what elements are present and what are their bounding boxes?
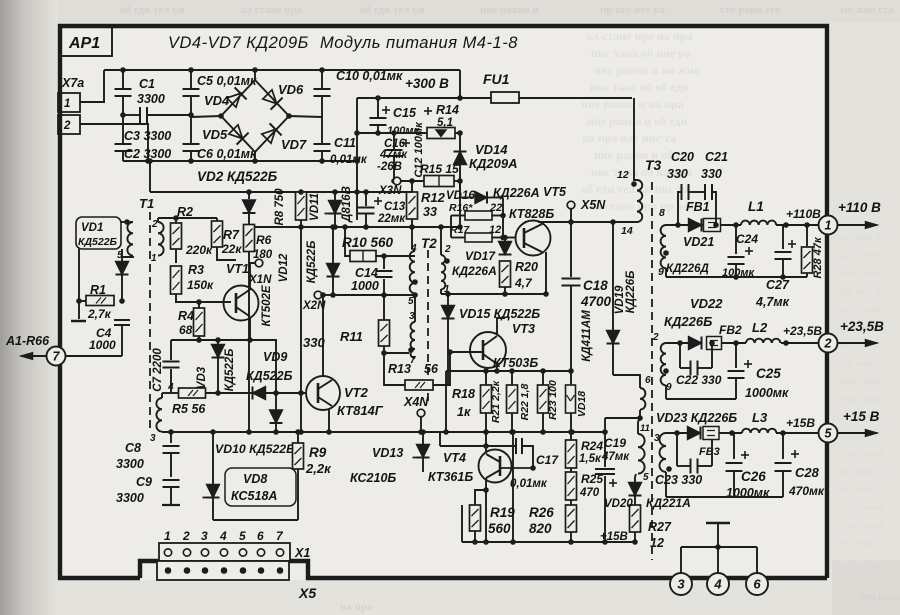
svg-text:470мк: 470мк — [788, 484, 825, 498]
svg-text:VD8: VD8 — [243, 472, 267, 486]
svg-text:2: 2 — [63, 120, 71, 132]
svg-text:Т3: Т3 — [645, 157, 662, 173]
svg-text:С8: С8 — [125, 441, 141, 455]
svg-text:R20: R20 — [515, 260, 538, 274]
svg-text:R21 2,2к: R21 2,2к — [490, 380, 502, 423]
svg-text:С18: С18 — [583, 278, 608, 293]
svg-text:VD13: VD13 — [372, 446, 403, 460]
svg-text:X5N: X5N — [580, 198, 606, 212]
svg-text:ние равн: ние равн — [840, 375, 885, 387]
svg-text:8: 8 — [659, 207, 665, 219]
svg-text:КД226А: КД226А — [452, 264, 497, 278]
svg-text:КД226А: КД226А — [493, 186, 540, 200]
svg-text:С28: С28 — [795, 465, 820, 480]
svg-text:220к: 220к — [185, 243, 213, 257]
svg-text:сто ронн: сто ронн — [860, 591, 900, 603]
svg-text:Т1: Т1 — [139, 196, 154, 211]
svg-text:150к: 150к — [187, 278, 214, 292]
svg-text:5: 5 — [408, 296, 414, 307]
svg-text:+300 В: +300 В — [405, 76, 449, 91]
svg-text:С2 3300: С2 3300 — [124, 147, 171, 161]
svg-text:-26В: -26В — [377, 161, 402, 173]
svg-text:+15В: +15В — [600, 531, 628, 543]
svg-text:сто ронн: сто ронн — [840, 519, 883, 531]
svg-text:КС518А: КС518А — [231, 489, 277, 503]
svg-text:ал стане про: ал стане про — [240, 4, 303, 16]
svg-text:VD11: VD11 — [309, 193, 321, 221]
svg-text:7: 7 — [53, 350, 61, 364]
svg-text:на пра в: на пра в — [840, 465, 881, 477]
svg-text:L2: L2 — [752, 320, 768, 335]
svg-text:R18: R18 — [452, 387, 475, 401]
svg-text:47мк: 47мк — [379, 149, 408, 161]
svg-text:С13: С13 — [384, 201, 406, 213]
svg-text:+23,5В: +23,5В — [840, 319, 884, 334]
svg-text:VT4: VT4 — [443, 451, 466, 465]
svg-text:КТ503Б: КТ503Б — [493, 356, 538, 370]
svg-text:АР1: АР1 — [68, 35, 100, 52]
svg-text:об еди т: об еди т — [840, 429, 879, 441]
svg-text:КД226Б: КД226Б — [625, 271, 637, 314]
svg-text:R19: R19 — [490, 505, 515, 520]
svg-text:R14: R14 — [436, 103, 459, 117]
svg-text:+15 В: +15 В — [843, 409, 880, 424]
svg-text:VD10 КД522Б: VD10 КД522Б — [215, 442, 295, 456]
svg-text:470: 470 — [579, 487, 600, 499]
svg-text:R28 47к: R28 47к — [812, 236, 824, 278]
svg-text:сто ронн: сто ронн — [840, 447, 883, 459]
svg-text:+110В: +110В — [786, 207, 821, 221]
svg-text:Модуль питания М4-1-8: Модуль питания М4-1-8 — [320, 34, 518, 52]
svg-text:VD18: VD18 — [576, 391, 588, 417]
svg-text:С12 100мк: С12 100мк — [413, 121, 425, 178]
svg-text:3: 3 — [201, 529, 208, 543]
svg-text:КС210Б: КС210Б — [350, 471, 396, 485]
svg-text:R8 750: R8 750 — [274, 188, 286, 226]
svg-text:R6: R6 — [256, 233, 272, 247]
svg-text:пис тана об ние ра: пис тана об ние ра — [591, 46, 691, 60]
svg-text:Д816В: Д816В — [341, 186, 353, 223]
svg-text:6: 6 — [257, 529, 264, 543]
svg-text:Х3N: Х3N — [378, 185, 402, 197]
svg-text:ние равно и на пра: ние равно и на пра — [581, 97, 684, 111]
svg-text:9: 9 — [658, 266, 664, 278]
svg-text:68: 68 — [179, 323, 193, 337]
svg-text:L3: L3 — [752, 410, 768, 425]
svg-text:КД209А: КД209А — [469, 156, 517, 171]
svg-text:Х5: Х5 — [298, 585, 316, 601]
svg-text:мо жно с: мо жно с — [840, 537, 883, 549]
svg-text:56: 56 — [424, 362, 439, 376]
svg-text:1000: 1000 — [89, 338, 116, 352]
svg-text:1,5к: 1,5к — [579, 453, 602, 465]
svg-text:VD14: VD14 — [475, 142, 508, 157]
svg-text:3: 3 — [150, 433, 156, 444]
svg-text:С14: С14 — [355, 266, 378, 280]
svg-text:330: 330 — [701, 167, 722, 181]
svg-text:1к: 1к — [457, 405, 471, 419]
svg-text:на пра: на пра — [340, 601, 373, 613]
svg-text:+15В: +15В — [786, 416, 815, 430]
svg-text:2: 2 — [444, 244, 451, 255]
svg-text:R26: R26 — [529, 505, 554, 520]
svg-text:Х1: Х1 — [294, 546, 310, 560]
svg-text:14: 14 — [621, 225, 633, 237]
svg-text:FB2: FB2 — [719, 323, 742, 337]
svg-text:ние равно и: ние равно и — [480, 4, 539, 16]
svg-text:С15: С15 — [393, 106, 417, 120]
svg-text:КТ502Е: КТ502Е — [261, 285, 273, 326]
svg-text:VD12: VD12 — [278, 253, 290, 282]
svg-text:пис тана об об еди: пис тана об об еди — [590, 80, 688, 94]
svg-text:7: 7 — [410, 355, 416, 366]
svg-text:R12: R12 — [421, 190, 446, 205]
svg-text:сто ронн его: сто ронн его — [720, 4, 781, 16]
svg-text:об еди тел ьн: об еди тел ьн — [360, 4, 425, 16]
svg-text:VD4: VD4 — [204, 93, 230, 108]
svg-text:5: 5 — [825, 427, 833, 441]
svg-text:2,2к: 2,2к — [305, 461, 332, 476]
svg-text:4,7: 4,7 — [514, 276, 533, 290]
svg-text:4: 4 — [167, 382, 174, 393]
svg-text:3300: 3300 — [116, 457, 144, 471]
svg-text:330: 330 — [667, 167, 688, 181]
svg-text:С27: С27 — [766, 278, 790, 292]
svg-text:R11: R11 — [340, 329, 363, 344]
svg-text:R10 560: R10 560 — [342, 235, 394, 250]
svg-text:А1-R66: А1-R66 — [5, 334, 50, 348]
svg-text:КД522Б: КД522Б — [246, 369, 293, 383]
svg-text:сто ронн: сто ронн — [840, 501, 883, 513]
svg-text:FB1: FB1 — [686, 200, 710, 214]
svg-text:пр ото нет ка: пр ото нет ка — [600, 4, 666, 16]
svg-text:820: 820 — [529, 521, 552, 536]
svg-text:VD7: VD7 — [281, 137, 307, 152]
svg-text:0,01мк: 0,01мк — [510, 478, 548, 490]
svg-text:R5 56: R5 56 — [172, 402, 206, 416]
svg-text:3300: 3300 — [137, 92, 165, 106]
svg-text:11: 11 — [640, 423, 650, 434]
svg-text:33: 33 — [423, 205, 437, 219]
svg-text:R2: R2 — [177, 205, 193, 219]
svg-text:VD3: VD3 — [196, 366, 208, 389]
svg-text:ние равн: ние равн — [840, 393, 885, 405]
svg-text:С24: С24 — [736, 232, 758, 246]
svg-text:С3 3300: С3 3300 — [124, 129, 171, 143]
svg-text:С17: С17 — [536, 453, 559, 467]
svg-text:2: 2 — [182, 529, 190, 543]
svg-text:ал стане: ал стане — [840, 303, 882, 315]
svg-text:1: 1 — [164, 529, 171, 543]
svg-text:R7: R7 — [223, 228, 240, 242]
svg-text:5: 5 — [643, 472, 649, 483]
svg-text:1000: 1000 — [351, 279, 379, 293]
svg-text:КТ814Г: КТ814Г — [337, 403, 384, 418]
svg-text:VD5: VD5 — [202, 127, 228, 142]
svg-text:R23 100: R23 100 — [547, 380, 559, 420]
svg-text:22мк: 22мк — [377, 213, 406, 225]
svg-text:С10 0,01мк: С10 0,01мк — [336, 69, 403, 83]
svg-text:FB3: FB3 — [699, 446, 720, 458]
svg-text:R9: R9 — [309, 445, 327, 460]
svg-text:С23 330: С23 330 — [655, 473, 702, 487]
svg-text:КД522Б: КД522Б — [306, 241, 318, 284]
svg-text:2,7к: 2,7к — [87, 307, 112, 321]
svg-text:Х7а: Х7а — [61, 76, 84, 90]
svg-text:С11: С11 — [334, 136, 356, 150]
svg-text:1000мк: 1000мк — [745, 386, 789, 400]
svg-text:+110 В: +110 В — [838, 200, 881, 215]
svg-text:VD23 КД226Б: VD23 КД226Б — [656, 411, 737, 425]
svg-text:КД522Б: КД522Б — [78, 236, 118, 248]
svg-text:6: 6 — [645, 375, 651, 386]
svg-text:об еди т: об еди т — [840, 339, 879, 351]
svg-text:R13: R13 — [388, 362, 411, 376]
svg-text:С25: С25 — [756, 366, 781, 381]
svg-text:С26: С26 — [741, 469, 766, 484]
svg-text:ал стане: ал стане — [840, 249, 882, 261]
svg-text:ние равно и об еди: ние равно и об еди — [587, 114, 687, 128]
svg-text:VT1: VT1 — [226, 262, 249, 276]
svg-text:VD22: VD22 — [690, 296, 723, 311]
svg-text:VT2: VT2 — [344, 385, 369, 400]
svg-text:VT3: VT3 — [512, 322, 535, 336]
svg-text:КД411АМ: КД411АМ — [581, 310, 593, 362]
svg-text:3300: 3300 — [116, 491, 144, 505]
svg-text:на пра вле пис та: на пра вле пис та — [582, 131, 676, 145]
svg-text:КТ361Б: КТ361Б — [428, 470, 473, 484]
svg-text:С22 330: С22 330 — [676, 373, 722, 387]
svg-text:4,7мк: 4,7мк — [755, 295, 790, 309]
svg-text:12: 12 — [617, 169, 629, 181]
svg-text:КД226Д: КД226Д — [666, 263, 709, 275]
svg-text:5,1: 5,1 — [437, 117, 453, 129]
svg-text:1: 1 — [825, 219, 832, 233]
svg-text:180: 180 — [253, 249, 273, 261]
svg-text:С7 2200: С7 2200 — [152, 348, 164, 392]
svg-text:0,01мк: 0,01мк — [330, 154, 368, 166]
svg-text:6: 6 — [753, 577, 761, 592]
svg-text:R22 1,8: R22 1,8 — [519, 383, 531, 420]
svg-text:22к: 22к — [221, 242, 242, 256]
svg-text:ние равн: ние равн — [840, 267, 885, 279]
svg-text:пр ото н: пр ото н — [840, 555, 881, 567]
svg-text:+23,5В: +23,5В — [783, 324, 822, 338]
svg-text:R4: R4 — [178, 309, 194, 323]
svg-text:мо жно с: мо жно с — [840, 357, 883, 369]
svg-text:КТ828Б: КТ828Б — [509, 207, 554, 221]
svg-text:L1: L1 — [748, 199, 764, 214]
svg-text:2: 2 — [824, 337, 832, 351]
svg-text:КД226Б: КД226Б — [664, 314, 712, 329]
svg-text:VD17: VD17 — [465, 249, 496, 263]
svg-text:R15 15: R15 15 — [420, 162, 459, 176]
svg-text:47мк: 47мк — [601, 451, 630, 463]
svg-text:2: 2 — [652, 332, 659, 343]
svg-text:пр ото н: пр ото н — [840, 285, 881, 297]
svg-text:ние равно и мо жно: ние равно и мо жно — [594, 63, 700, 77]
svg-text:VD6: VD6 — [278, 82, 304, 97]
svg-text:мо жно с: мо жно с — [840, 483, 883, 495]
svg-text:ал стане про на пра: ал стане про на пра — [586, 29, 693, 43]
svg-text:5: 5 — [239, 529, 246, 543]
svg-text:С9: С9 — [136, 475, 152, 489]
svg-text:VT5: VT5 — [543, 185, 567, 199]
svg-text:С6 0,01мк: С6 0,01мк — [197, 147, 257, 161]
svg-text:С21: С21 — [705, 150, 728, 164]
svg-text:КД522Б: КД522Б — [224, 349, 236, 392]
svg-text:R3: R3 — [188, 263, 204, 277]
svg-text:об еди тел ьн: об еди тел ьн — [120, 4, 185, 16]
svg-text:R24: R24 — [581, 439, 603, 453]
svg-text:4: 4 — [219, 529, 227, 543]
svg-text:4700: 4700 — [580, 294, 612, 309]
svg-text:VD2 КД522Б: VD2 КД522Б — [197, 169, 278, 184]
svg-text:С1: С1 — [139, 77, 155, 91]
svg-text:VD1: VD1 — [81, 222, 103, 234]
svg-text:С19: С19 — [604, 436, 626, 450]
svg-text:мо жно ста: мо жно ста — [840, 4, 895, 16]
svg-text:X1N: X1N — [248, 274, 272, 286]
svg-text:1: 1 — [64, 98, 70, 110]
svg-text:VD20: VD20 — [604, 498, 633, 510]
svg-text:С5 0,01мк: С5 0,01мк — [197, 74, 257, 88]
svg-text:2: 2 — [151, 219, 158, 230]
svg-text:3: 3 — [677, 577, 685, 592]
svg-text:Т2: Т2 — [421, 236, 437, 251]
svg-text:1: 1 — [151, 253, 157, 264]
svg-text:на пра в: на пра в — [840, 231, 881, 243]
svg-text:4: 4 — [713, 577, 722, 592]
svg-text:VD4-VD7 КД209Б: VD4-VD7 КД209Б — [168, 34, 309, 52]
svg-text:VD21: VD21 — [683, 235, 714, 249]
svg-text:С20: С20 — [671, 150, 694, 164]
svg-text:FU1: FU1 — [483, 71, 510, 87]
svg-text:560: 560 — [488, 521, 511, 536]
svg-text:X4N: X4N — [403, 395, 429, 409]
